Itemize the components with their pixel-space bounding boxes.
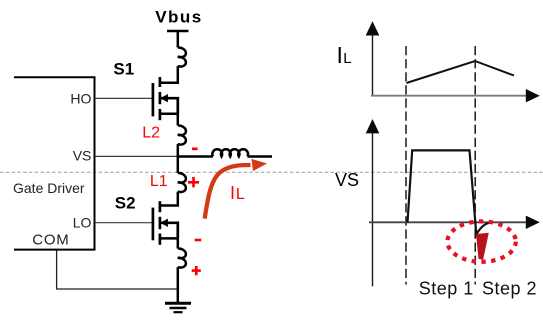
svg-text:Step 1: Step 1 bbox=[419, 279, 474, 299]
svg-text:COM: COM bbox=[32, 232, 69, 249]
svg-text:L: L bbox=[236, 186, 245, 203]
svg-text:I: I bbox=[230, 183, 235, 203]
svg-text:LO: LO bbox=[73, 214, 92, 230]
svg-text:HO: HO bbox=[70, 91, 91, 107]
svg-text:VS: VS bbox=[335, 170, 359, 190]
svg-text:Step 2: Step 2 bbox=[482, 279, 537, 299]
svg-text:L1: L1 bbox=[150, 173, 168, 190]
svg-text:S1: S1 bbox=[113, 60, 134, 79]
svg-text:Gate Driver: Gate Driver bbox=[13, 180, 85, 196]
svg-text:L2: L2 bbox=[142, 125, 160, 142]
svg-text:S2: S2 bbox=[115, 194, 136, 213]
svg-text:I: I bbox=[337, 42, 343, 68]
svg-text:Vbus: Vbus bbox=[155, 7, 203, 26]
svg-text:VS: VS bbox=[73, 147, 92, 163]
svg-text:L: L bbox=[343, 50, 351, 67]
